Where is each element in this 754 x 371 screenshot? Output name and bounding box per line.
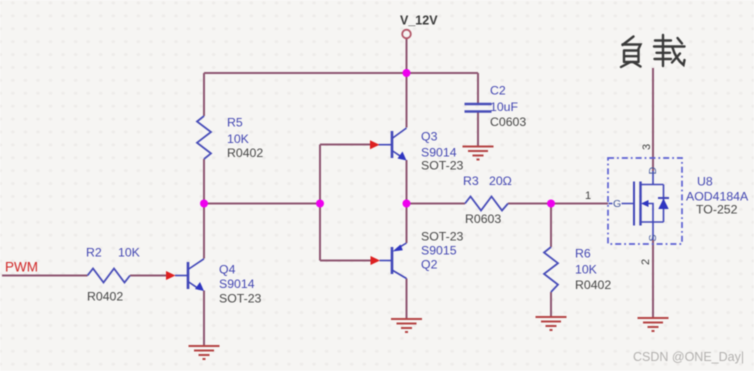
svg-text:SOT-23: SOT-23 bbox=[219, 292, 262, 306]
svg-text:R0603: R0603 bbox=[465, 212, 501, 226]
svg-text:U8: U8 bbox=[697, 175, 713, 189]
svg-text:SOT-23: SOT-23 bbox=[421, 159, 464, 173]
svg-text:3: 3 bbox=[641, 144, 653, 150]
svg-text:AOD4184A: AOD4184A bbox=[686, 190, 749, 204]
svg-text:R2: R2 bbox=[86, 246, 102, 260]
svg-text:S: S bbox=[647, 234, 659, 241]
svg-text:C2: C2 bbox=[490, 84, 506, 98]
svg-text:Q3: Q3 bbox=[421, 130, 438, 144]
svg-text:SOT-23: SOT-23 bbox=[421, 230, 464, 244]
svg-text:Q4: Q4 bbox=[219, 263, 236, 277]
svg-text:V_12V: V_12V bbox=[400, 14, 438, 28]
svg-text:10K: 10K bbox=[118, 246, 141, 260]
svg-text:Q2: Q2 bbox=[421, 258, 438, 272]
svg-text:20Ω: 20Ω bbox=[489, 174, 512, 188]
svg-text:R0402: R0402 bbox=[87, 290, 123, 304]
svg-text:R0402: R0402 bbox=[227, 146, 263, 160]
svg-text:S9014: S9014 bbox=[219, 277, 255, 291]
svg-text:1: 1 bbox=[585, 190, 591, 202]
svg-text:10K: 10K bbox=[575, 263, 598, 277]
svg-text:G: G bbox=[613, 198, 621, 210]
svg-text:S9015: S9015 bbox=[421, 244, 457, 258]
svg-text:10K: 10K bbox=[227, 132, 250, 146]
svg-text:TO-252: TO-252 bbox=[696, 203, 738, 217]
svg-text:PWM: PWM bbox=[5, 260, 38, 275]
svg-text:R0402: R0402 bbox=[575, 278, 611, 292]
svg-text:R6: R6 bbox=[575, 247, 591, 261]
svg-text:R5: R5 bbox=[227, 116, 243, 130]
svg-text:C0603: C0603 bbox=[490, 115, 526, 129]
svg-text:CSDN @ONE_Day|: CSDN @ONE_Day| bbox=[633, 350, 744, 364]
svg-text:D: D bbox=[647, 167, 659, 175]
svg-text:10uF: 10uF bbox=[490, 100, 519, 114]
svg-text:S9014: S9014 bbox=[421, 146, 457, 160]
svg-text:2: 2 bbox=[640, 259, 652, 265]
svg-text:R3: R3 bbox=[463, 174, 479, 188]
